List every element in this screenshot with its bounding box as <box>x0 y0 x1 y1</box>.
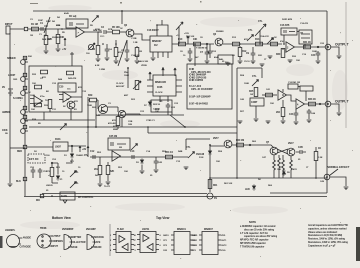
wire top drop x122 <box>121 11 123 24</box>
wire aux bus y133 <box>148 127 237 133</box>
svg-text:IC3B: IC3B <box>157 86 163 89</box>
potentiometer SPEED <box>7 56 32 64</box>
resistor R2 <box>44 30 52 50</box>
wire reg in <box>27 146 53 148</box>
text cluster input stage <box>30 19 66 39</box>
scan nub right edge <box>356 227 360 261</box>
op-amp IC3 clock <box>153 75 176 96</box>
svg-text:1M: 1M <box>300 33 303 35</box>
pot arrow lfo <box>60 124 67 131</box>
ground C6 <box>188 59 193 62</box>
svg-text:C10 R41 1W: C10 R41 1W <box>288 81 301 84</box>
box EXT DC <box>28 154 45 163</box>
box depth <box>250 98 264 106</box>
wire A4 out <box>305 103 326 105</box>
diode D7 <box>144 100 152 107</box>
svg-text:R43 47K: R43 47K <box>68 77 77 80</box>
ground R8 <box>135 61 140 64</box>
wire Q3 out <box>223 43 282 45</box>
svg-text:330P: 330P <box>46 21 51 23</box>
wire q6 rail <box>210 145 268 146</box>
svg-text:+9V: +9V <box>82 148 87 151</box>
pot trim input <box>86 43 95 55</box>
transistor Q6 <box>213 137 232 148</box>
capacitor C4 <box>105 47 113 57</box>
wire lfo bus120 <box>25 97 95 127</box>
svg-text:SOURCE: SOURCE <box>94 236 104 239</box>
text lfo box interior <box>32 74 44 125</box>
ground R3 <box>56 49 61 52</box>
svg-text:a CER/DISC capacitor: All ce: a CER/DISC capacitor: All ceramic <box>240 225 276 228</box>
node +15V <box>184 33 190 44</box>
resistor R51 <box>106 162 114 181</box>
svg-text:C9 10: C9 10 <box>244 61 250 63</box>
svg-text:Bottom View: Bottom View <box>52 216 71 220</box>
wire fb top <box>237 68 262 78</box>
text lfo rows <box>30 95 78 111</box>
transistor Q5 <box>118 110 125 117</box>
svg-text:R33 1K: R33 1K <box>308 98 316 101</box>
svg-text:OUTPUT: OUTPUT <box>335 100 350 104</box>
svg-text:R14 4.7K: R14 4.7K <box>260 35 269 38</box>
svg-text:10P1~4B3 1P1-003: 10P1~4B3 1P1-003 <box>191 71 211 74</box>
text PNA 100K <box>124 71 129 77</box>
svg-text:GND1: GND1 <box>163 235 169 237</box>
svg-text:R5 10K: R5 10K <box>112 26 120 29</box>
svg-text:B 10P~10P 12B4B4P: B 10P~10P 12B4B4P <box>189 96 211 99</box>
text cluster power <box>30 151 75 177</box>
svg-text:C4B: C4B <box>298 146 303 149</box>
svg-text:10K: 10K <box>193 38 198 41</box>
svg-text:2M: 2M <box>119 147 122 149</box>
wire clock bus y115 <box>98 114 184 116</box>
junction sq bus bottom <box>36 194 44 202</box>
svg-text:B 5I7~4B 94-R4B2: B 5I7~4B 94-R4B2 <box>189 103 209 106</box>
svg-text:EXT. DC: EXT. DC <box>29 157 39 161</box>
resistor R7 <box>114 44 122 60</box>
text cluster clock2 <box>108 103 160 131</box>
svg-text:MN3101B: MN3101B <box>155 81 166 84</box>
text cluster out1 <box>280 40 325 62</box>
wire mid vertical x236 <box>236 68 238 178</box>
svg-text:12B: 12B <box>128 124 132 126</box>
node out1 <box>317 46 319 48</box>
potentiometer P5 <box>21 115 27 123</box>
node q6 <box>249 144 251 146</box>
svg-text:10K: 10K <box>60 36 65 39</box>
text cluster power2 <box>46 155 81 192</box>
resistor R21b <box>112 115 120 129</box>
svg-text:BALS 10K: BALS 10K <box>138 60 149 63</box>
ground R12 <box>226 63 231 66</box>
svg-text:2N4?: 2N4? <box>288 142 294 145</box>
resistor R34 <box>276 100 285 120</box>
wire control bus <box>24 57 26 196</box>
scan nub left edge <box>0 236 3 248</box>
ground R6 <box>96 59 101 62</box>
wire top border bus <box>33 10 327 12</box>
pot arrow ctl2 <box>70 182 79 189</box>
wire Q4 base <box>97 100 99 109</box>
pot arrow bias <box>92 16 99 23</box>
transistor Q7 <box>266 141 278 155</box>
text cluster flipflop <box>216 141 325 187</box>
ic MN3101 dip <box>163 228 198 255</box>
svg-text:62K: 62K <box>110 170 115 173</box>
svg-text:100K: 100K <box>244 83 249 85</box>
svg-text:R60 1M: R60 1M <box>236 139 244 142</box>
resistor R63 <box>277 160 284 178</box>
svg-text:CTL: CTL <box>74 182 79 185</box>
svg-text:BLK: BLK <box>16 180 21 183</box>
svg-text:10K: 10K <box>216 161 220 163</box>
svg-text:100K: 100K <box>124 75 129 77</box>
resistor R25 <box>249 88 258 97</box>
svg-text:MNB: MNB <box>113 129 118 131</box>
ground A2 <box>288 60 293 63</box>
wire A1 out <box>85 31 103 33</box>
resistor R15 <box>271 38 278 46</box>
resistor R12 <box>238 46 247 60</box>
svg-text:IC4B C34PB3: IC4B C34PB3 <box>189 79 204 82</box>
svg-text:discs are 25 volts 20% rating: discs are 25 volts 20% rating <box>244 228 275 231</box>
svg-text:R101: R101 <box>55 138 61 141</box>
resistor R65 <box>314 147 323 178</box>
scan speck top <box>30 1 202 4</box>
svg-text:capacitors are above 25V ratin: capacitors are above 25V rating <box>244 235 278 238</box>
svg-text:C23 05: C23 05 <box>153 109 161 111</box>
resistor R8 <box>135 46 142 60</box>
capacitor C9 <box>246 47 255 60</box>
svg-text:R49: R49 <box>88 94 93 97</box>
svg-text:1.5DB: 1.5DB <box>99 69 105 71</box>
footswitch FS1 <box>207 193 217 200</box>
transistor Q2 <box>124 24 134 37</box>
capacitor C20 <box>311 51 320 60</box>
ground out2a <box>266 121 271 124</box>
ground C20 <box>316 61 321 64</box>
svg-text:100K: 100K <box>2 129 8 132</box>
capacitor C43 <box>289 109 298 121</box>
svg-text:C16 ATB: C16 ATB <box>280 24 290 27</box>
svg-text:+4V: +4V <box>62 48 67 51</box>
svg-text:ADJUST: ADJUST <box>116 85 125 88</box>
resistor R64 <box>290 160 298 178</box>
ground R2 <box>44 51 49 54</box>
svg-text:TL071: TL071 <box>104 186 111 188</box>
svg-text:C35 1M: C35 1M <box>109 135 117 138</box>
pot arrow trim2 <box>267 38 274 45</box>
feedback box A2b <box>299 30 312 44</box>
resistor R60 <box>236 139 244 147</box>
pot arrow fs <box>186 146 195 158</box>
ground fb1 <box>238 121 243 124</box>
text cluster preamp <box>42 12 69 41</box>
svg-text:VGG: VGG <box>221 250 226 252</box>
transistor Q1 stroke <box>44 17 50 33</box>
svg-text:C14B 05: C14B 05 <box>131 54 140 57</box>
wire A2 feedback <box>284 32 305 49</box>
svg-text:C13: C13 <box>130 150 135 153</box>
potentiometer P4 <box>2 106 27 114</box>
svg-text:DC adj: DC adj <box>69 15 77 18</box>
text cluster input under rail <box>30 16 61 37</box>
capacitor C1 <box>40 22 44 31</box>
svg-text:1K: 1K <box>274 37 277 39</box>
svg-text:B 1-17~4C3: B 1-17~4C3 <box>189 85 202 88</box>
pot arrow pre <box>176 22 183 44</box>
bridge box <box>60 192 75 203</box>
svg-text:b T is M capacitor: All T-4A: b T is M capacitor: All T-4A <box>240 232 268 235</box>
wire rail stubs <box>98 32 127 47</box>
svg-text:C13B: C13B <box>131 38 137 40</box>
svg-text:CLOCK: CLOCK <box>116 83 124 85</box>
node +15 c1 <box>149 72 151 80</box>
svg-text:1N4148: 1N4148 <box>196 153 205 156</box>
svg-text:S-100MA: S-100MA <box>13 97 23 100</box>
op-amp A5 <box>30 96 43 106</box>
svg-text:GATE: GATE <box>94 241 101 244</box>
svg-text:1K: 1K <box>28 92 31 94</box>
text cluster lowchain <box>118 150 183 177</box>
svg-text:4.5K: 4.5K <box>95 64 100 67</box>
svg-text:MN3007: MN3007 <box>204 228 213 231</box>
junction sq RED <box>17 145 27 153</box>
svg-text:D-ON: D-ON <box>61 195 67 198</box>
svg-text:CTL: CTL <box>248 29 253 32</box>
node +15V <box>84 146 89 157</box>
box clock2 <box>151 100 172 112</box>
svg-text:100K: 100K <box>30 95 35 97</box>
svg-text:C43: C43 <box>289 113 294 116</box>
svg-text:TB/08: TB/08 <box>40 227 47 230</box>
wire bottom ground bus <box>24 196 327 198</box>
svg-text:10P1~4C C0UC40BP: 10P1~4C C0UC40BP <box>191 88 213 91</box>
svg-text:TL022: TL022 <box>117 228 124 231</box>
wire IC1 bottom pins <box>153 52 168 58</box>
pot arrow trim1 <box>247 29 254 41</box>
wire IC1 out <box>172 43 214 45</box>
svg-text:D2R1 ATB: D2R1 ATB <box>282 18 293 21</box>
resistor R72 <box>46 163 54 183</box>
svg-text:Top View: Top View <box>156 216 170 220</box>
pot arrow ctl big <box>255 20 266 44</box>
svg-text:1K: 1K <box>318 147 321 150</box>
potentiometer LOOP <box>8 73 27 81</box>
ic LM741 dip <box>134 228 162 253</box>
resistor R26 <box>266 93 273 97</box>
svg-text:C12: C12 <box>90 150 95 153</box>
op-amp A3 <box>278 90 287 100</box>
scan streak right <box>345 2 347 128</box>
svg-text:22K: 22K <box>258 55 262 57</box>
wire q5 tie <box>122 114 140 127</box>
resistor R30 <box>276 49 285 58</box>
svg-text:3B: 3B <box>5 133 8 135</box>
node +15 c3 <box>174 68 176 76</box>
svg-text:47K: 47K <box>74 100 78 103</box>
text cluster out1 top <box>282 18 309 25</box>
svg-text:47K 4M: 47K 4M <box>108 122 116 125</box>
feedback box A1 <box>66 15 88 28</box>
wire fs branch <box>186 139 210 150</box>
wire pot taps <box>26 62 29 131</box>
svg-text:CTL: CTL <box>258 20 263 23</box>
ground R34 <box>281 121 286 124</box>
wire battery tie <box>10 147 25 149</box>
svg-text:INPUT: INPUT <box>51 245 59 248</box>
capacitor C50 <box>31 168 36 178</box>
ground J3 <box>337 113 342 116</box>
op-amp A6 <box>59 92 82 102</box>
capacitor C51 <box>38 168 48 178</box>
wire fs vertical <box>209 145 211 192</box>
ground C7 <box>205 61 210 64</box>
svg-text:CLOCK: CLOCK <box>155 92 163 94</box>
ground C43 <box>294 122 299 125</box>
legend separator <box>109 224 111 256</box>
resistor R20 <box>87 94 98 107</box>
capacitor C2 <box>101 26 112 34</box>
svg-text:C16 470: C16 470 <box>300 22 309 25</box>
text notes col1 <box>240 225 278 248</box>
op-amp A7 <box>112 151 121 161</box>
svg-text:C30: C30 <box>59 86 64 89</box>
svg-text:LOOP: LOOP <box>8 73 15 77</box>
svg-text:capacitors, unless otherwise m: capacitors, unless otherwise marked <box>308 227 347 230</box>
svg-text:EMITTER: EMITTER <box>71 236 81 239</box>
svg-text:Resistances, 1/4W or 1/2W, ±5%: Resistances, 1/4W or 1/2W, ±5% rating <box>308 241 349 244</box>
battery BT1 <box>2 85 13 95</box>
svg-text:1K: 1K <box>120 28 123 30</box>
transistor 2N4448 pinout <box>86 228 104 250</box>
zener Z1 <box>56 174 63 181</box>
ground C9 <box>251 61 256 64</box>
svg-text:47K: 47K <box>78 86 82 89</box>
wire A2 out <box>295 46 326 48</box>
svg-text:MN3101: MN3101 <box>177 228 186 231</box>
resistor R50 <box>94 157 102 183</box>
svg-text:LED: LED <box>245 188 250 191</box>
transistor Q4 <box>96 104 108 117</box>
svg-text:100K: 100K <box>312 51 317 53</box>
ground depth <box>254 119 259 122</box>
svg-text:9V: 9V <box>2 85 5 89</box>
svg-text:R30: R30 <box>276 53 281 56</box>
svg-text:1N4001: 1N4001 <box>76 154 84 157</box>
text cluster topchain upper <box>176 31 277 41</box>
potentiometer P3 <box>21 91 32 96</box>
ic TL071 pinout <box>37 227 63 248</box>
svg-text:C4MT: C4MT <box>251 101 258 104</box>
resistor R62 <box>273 160 276 178</box>
op-amp A2 <box>286 42 295 52</box>
node junction main <box>206 43 208 45</box>
resistor R5 <box>112 26 126 34</box>
svg-text:INPUT: INPUT <box>5 22 13 26</box>
ground out1a <box>268 56 273 59</box>
svg-text:R61 10K: R61 10K <box>224 183 233 185</box>
svg-text:C2B: C2B <box>128 121 133 123</box>
transistor Q3 <box>213 33 223 46</box>
op-amp A1 <box>76 27 85 37</box>
svg-text:D1N: D1N <box>199 157 204 159</box>
svg-text:BAL: BAL <box>219 58 224 61</box>
transistor 2N5088 pinout <box>62 228 86 250</box>
svg-text:IC4B: IC4B <box>189 68 194 71</box>
resistor lfo box r2 <box>35 103 42 107</box>
svg-text:100K: 100K <box>100 111 105 113</box>
ground out1b <box>260 64 265 67</box>
wire mixer drop <box>194 44 196 66</box>
svg-text:1M: 1M <box>30 35 33 37</box>
transistor slash Q2b <box>118 40 127 66</box>
resistor R67 <box>278 155 281 178</box>
svg-text:47K: 47K <box>244 38 248 41</box>
svg-text:VR3B: VR3B <box>141 65 147 67</box>
resistor R11 <box>193 38 201 46</box>
svg-text:R22 1K: R22 1K <box>153 104 161 106</box>
svg-text:CATHODE: CATHODE <box>20 246 32 249</box>
svg-text:IC4B2 DM400BP: IC4B2 DM400BP <box>189 74 207 77</box>
svg-text:And all capacitors are ELECTRO: And all capacitors are ELECTROLYTIC <box>308 224 349 227</box>
capacitor C13 <box>130 150 135 159</box>
capacitor C14 <box>154 157 163 169</box>
wire reg out <box>68 145 86 147</box>
trimmer CLOCK ADJUST <box>116 81 141 90</box>
wire Q2 to IC1 <box>134 34 150 40</box>
zener Z1 pinout <box>5 229 31 249</box>
svg-text:VDD: VDD <box>221 235 226 237</box>
svg-text:LM3?: LM3? <box>55 146 62 149</box>
resistor R61 <box>208 180 218 189</box>
svg-text:R6B 10K: R6B 10K <box>93 30 102 32</box>
resistor R54 <box>165 151 174 159</box>
svg-text:LM741: LM741 <box>142 228 150 231</box>
wire mid bus y129 <box>29 126 237 128</box>
svg-text:R31 1K: R31 1K <box>303 41 311 44</box>
svg-text:2N5088: 2N5088 <box>52 37 60 39</box>
resistor R36 <box>41 70 48 79</box>
svg-text:1M: 1M <box>66 99 69 101</box>
diode D1 <box>70 152 84 159</box>
diode D3 <box>136 158 144 170</box>
svg-text:NP NPO: FEC-AR capacitor: NP NPO: FEC-AR capacitor <box>240 239 269 242</box>
resistor R13 <box>233 42 240 46</box>
svg-text:1.5B: 1.5B <box>133 42 138 44</box>
wire flipflop cross <box>274 149 291 160</box>
svg-text:C20: C20 <box>311 54 316 57</box>
svg-text:AMBRE: AMBRE <box>2 111 11 114</box>
wire left input rail <box>9 34 11 183</box>
ground J2 <box>337 56 342 59</box>
svg-text:10K: 10K <box>31 109 35 111</box>
wire A3 to A4 <box>287 95 297 101</box>
svg-text:2N5088: 2N5088 <box>216 31 224 33</box>
wire lfo bus y178 <box>210 177 327 179</box>
regulator box VR1 <box>53 138 68 151</box>
diode D4 <box>196 149 212 159</box>
svg-text:T:1000M 04: T:1000M 04 <box>196 47 208 50</box>
resistor lfo box r <box>35 85 42 89</box>
ground C14 <box>154 170 159 173</box>
svg-text:47K: 47K <box>112 119 116 122</box>
svg-text:R4B 10K: R4B 10K <box>42 38 51 41</box>
svg-text:NP 545/TA 25M capacitor: NP 545/TA 25M capacitor <box>240 242 266 245</box>
junction sq BLK <box>16 177 27 183</box>
ic TL022 dip <box>110 228 137 253</box>
wire depth down <box>255 106 257 118</box>
